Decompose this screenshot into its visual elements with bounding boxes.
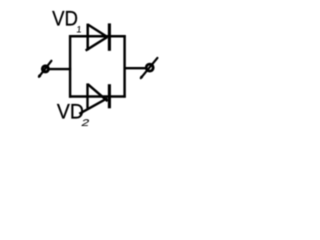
label VD2: [57, 100, 91, 129]
diode VD2: [79, 83, 109, 113]
wire top branch: [69, 35, 126, 37]
diode VD2 cathode bar: [108, 84, 111, 108]
wire left terminal to node A: [49, 68, 71, 70]
svg-text:VD: VD: [57, 100, 84, 124]
svg-text:1: 1: [76, 25, 82, 35]
diode VD2 anode triangle: [86, 83, 88, 108]
svg-text:VD: VD: [52, 7, 78, 30]
wire bottom branch: [69, 95, 126, 97]
label VD1: [52, 7, 82, 34]
wire node B to right terminal: [124, 67, 146, 69]
diode VD1 anode triangle: [86, 24, 89, 51]
diode VD1 cathode bar: [108, 23, 111, 50]
terminal X2 (right output terminal, circle with slash): [140, 58, 157, 79]
diode VD1: [86, 23, 110, 50]
node B (right junction vertical wire): [123, 35, 125, 97]
terminal X1 (left input terminal, circle with slash): [38, 61, 51, 78]
node A (left junction vertical wire): [69, 35, 71, 97]
